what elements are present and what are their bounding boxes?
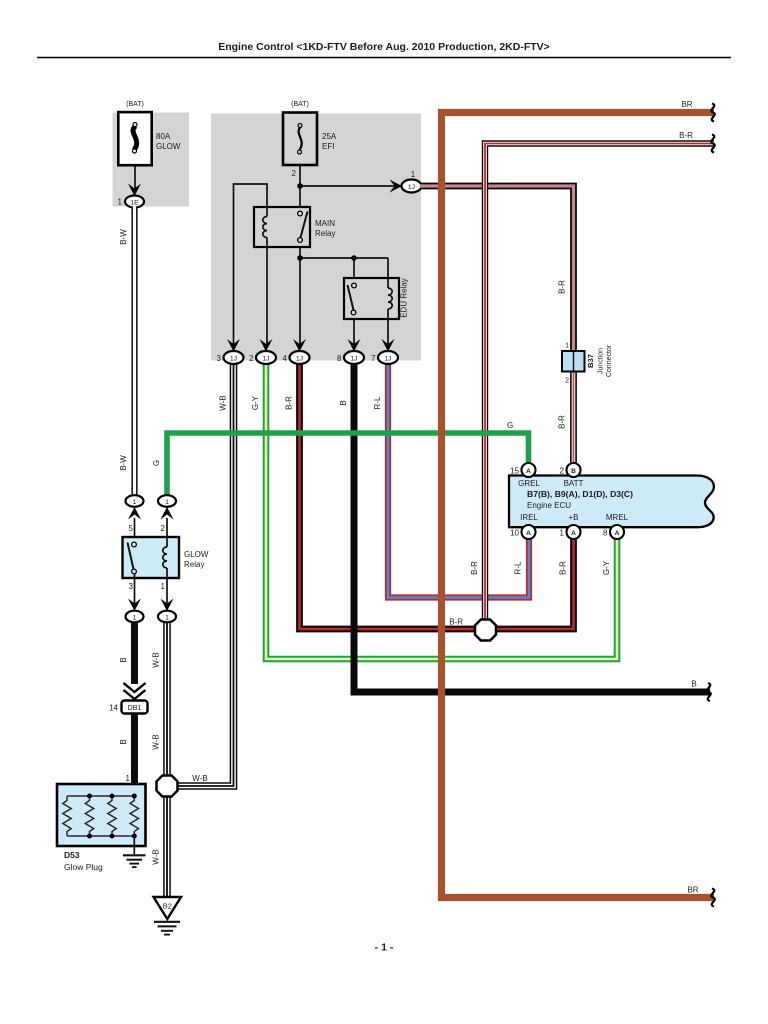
connector 7(1J)	[371, 339, 398, 364]
svg-text:2: 2	[249, 354, 254, 363]
connector 1 oval left above glow relay	[126, 495, 144, 519]
svg-text:B37: B37	[586, 354, 595, 368]
svg-text:Connector: Connector	[606, 344, 613, 377]
wire B-R +B to junction	[494, 539, 574, 629]
svg-text:Glow Plug: Glow Plug	[64, 862, 103, 872]
break symbol BR top	[711, 104, 714, 122]
wire arrow to glow relay pin2	[166, 518, 168, 538]
svg-text:1J: 1J	[230, 356, 237, 363]
svg-text:A: A	[571, 530, 576, 537]
svg-text:25A: 25A	[322, 132, 337, 141]
svg-text:B7(B), B9(A), D1(D), D3(C): B7(B), B9(A), D1(D), D3(C)	[527, 489, 633, 499]
break symbol B	[707, 683, 710, 701]
node W-B junction octagon	[157, 776, 178, 797]
svg-text:4: 4	[283, 354, 288, 363]
node main/EDU junction	[297, 255, 303, 261]
junction connector B37	[562, 351, 585, 372]
svg-text:R-L: R-L	[373, 396, 382, 409]
svg-text:1J: 1J	[262, 356, 269, 363]
relay K3 GLOW Relay	[123, 537, 180, 578]
break symbol BR bottom	[711, 889, 714, 907]
svg-text:B-W: B-W	[119, 455, 128, 471]
connector 1E	[125, 196, 144, 208]
wire arrow to glow relay pin5	[134, 518, 136, 542]
wire fuse F2 to main relay switch	[299, 165, 301, 213]
wire G-Y 2(1J) to MREL	[266, 364, 617, 659]
connector 1 oval below pin1	[158, 599, 176, 623]
svg-text:Relay: Relay	[315, 229, 335, 238]
pin 15(A) GREL	[510, 463, 535, 477]
relay K1 MAIN Relay	[254, 207, 310, 247]
svg-text:BATT: BATT	[564, 479, 584, 488]
svg-text:14: 14	[109, 704, 118, 713]
connector DB1	[122, 701, 148, 714]
label B37 Junction Connector	[586, 344, 613, 377]
break symbol B-R top	[711, 135, 714, 153]
svg-text:MREL: MREL	[606, 513, 629, 522]
node B-R junction octagon	[475, 620, 496, 641]
wire W-B 3(1J) to junction	[176, 364, 234, 786]
svg-text:1: 1	[411, 170, 416, 179]
wire B 8(1J) to break	[354, 364, 710, 692]
svg-text:R-L: R-L	[514, 561, 523, 574]
wire glow plug to ground	[133, 836, 135, 854]
svg-text:1J: 1J	[408, 184, 415, 191]
svg-text:A: A	[526, 468, 531, 475]
svg-text:G-Y: G-Y	[251, 395, 260, 410]
svg-text:EDU Relay: EDU Relay	[400, 278, 409, 318]
svg-text:2: 2	[161, 524, 166, 533]
svg-text:EFI: EFI	[322, 142, 334, 151]
ground below B2	[154, 922, 180, 935]
wire main relay coil bottom to 2(1J)	[266, 247, 268, 348]
svg-text:BR: BR	[687, 886, 698, 895]
svg-text:1: 1	[126, 774, 131, 783]
svg-text:W-B: W-B	[192, 774, 207, 783]
svg-text:DB1: DB1	[128, 703, 142, 712]
svg-text:1: 1	[133, 615, 137, 622]
arrow open chevrons above DB1	[124, 683, 146, 699]
svg-text:1J: 1J	[296, 356, 303, 363]
wire fuse F1 to connector 1E	[134, 165, 136, 190]
svg-text:B-R: B-R	[285, 396, 294, 410]
pin 2(B) BATT	[560, 463, 581, 477]
svg-text:5: 5	[129, 524, 134, 533]
connector 1 oval right above glow relay	[158, 495, 176, 519]
svg-text:B2: B2	[163, 902, 172, 911]
wire B glow relay pin3 down	[131, 622, 138, 684]
wire EDU switch to 8(1J)	[353, 313, 355, 348]
svg-text:B-W: B-W	[119, 229, 128, 245]
svg-text:2: 2	[565, 378, 569, 385]
svg-text:Relay: Relay	[184, 560, 204, 569]
shading box relay block	[211, 114, 421, 361]
svg-text:1: 1	[133, 499, 137, 506]
svg-text:B-R: B-R	[559, 561, 568, 575]
svg-text:1: 1	[118, 198, 123, 207]
svg-text:(BAT): (BAT)	[126, 101, 144, 108]
connector 3(1J)	[217, 339, 244, 364]
wire EDU coil to 7(1J)	[387, 315, 389, 348]
connector 1J top right	[402, 180, 422, 193]
relay K2 EDU Relay	[344, 278, 399, 319]
fuse F1 80A GLOW	[118, 112, 151, 165]
svg-text:BR: BR	[681, 100, 692, 109]
svg-text:(BAT): (BAT)	[291, 101, 309, 108]
connector 8(1J)	[337, 339, 364, 364]
svg-text:8: 8	[603, 529, 608, 538]
svg-text:1: 1	[560, 529, 565, 538]
fuse F2 25A EFI	[283, 113, 317, 166]
arrow into 1E	[128, 184, 141, 197]
svg-text:Engine ECU: Engine ECU	[527, 501, 571, 510]
svg-text:B-R: B-R	[679, 131, 693, 140]
connector 1 oval below pin3	[126, 599, 144, 623]
wire junction to 1J arrow	[300, 185, 398, 187]
svg-text:D53: D53	[64, 850, 80, 860]
svg-text:B: B	[119, 657, 128, 662]
wire relay junction row	[300, 257, 388, 259]
ground below glow plug	[123, 855, 146, 867]
svg-text:B: B	[571, 468, 576, 475]
svg-text:15: 15	[510, 467, 519, 476]
pin 10(A) IREL	[510, 525, 535, 539]
svg-text:IREL: IREL	[520, 513, 538, 522]
connector 2(1J)	[249, 339, 276, 364]
svg-text:G-Y: G-Y	[602, 560, 611, 575]
title rule	[37, 57, 731, 59]
wire R-L 7(1J) to IREL	[388, 364, 529, 598]
svg-text:7: 7	[371, 354, 376, 363]
svg-text:8: 8	[337, 354, 342, 363]
svg-text:2: 2	[292, 169, 297, 178]
svg-text:A: A	[526, 530, 531, 537]
svg-text:- 1 -: - 1 -	[375, 942, 394, 954]
svg-text:GLOW: GLOW	[184, 550, 209, 559]
svg-text:B-R: B-R	[470, 561, 479, 575]
svg-text:G: G	[152, 460, 161, 466]
pin 8(A) MREL	[603, 525, 624, 539]
wire BR main battery	[442, 113, 715, 898]
svg-text:GLOW: GLOW	[156, 142, 181, 151]
svg-text:B-R: B-R	[558, 280, 567, 294]
svg-text:80A: 80A	[156, 132, 171, 141]
svg-text:W-B: W-B	[152, 734, 161, 749]
wire G glow relay to GREL	[167, 433, 529, 496]
svg-text:Engine Control <1KD-FTV Before: Engine Control <1KD-FTV Before Aug. 2010…	[218, 41, 550, 53]
svg-text:1: 1	[161, 582, 166, 591]
svg-text:1: 1	[565, 343, 569, 350]
wire B-W 1E to glow relay	[131, 207, 137, 496]
wire to EDU switch	[353, 258, 355, 283]
svg-text:W-B: W-B	[219, 395, 228, 410]
wire glow relay pin1 down	[166, 578, 168, 604]
svg-text:1J: 1J	[350, 356, 357, 363]
shading box glow fuse	[113, 113, 190, 207]
ground point B2	[154, 897, 182, 919]
wire main relay coil to 3(1J)	[234, 184, 268, 348]
svg-text:1: 1	[165, 499, 169, 506]
glow plug D53	[57, 784, 146, 846]
svg-text:W-B: W-B	[152, 652, 161, 667]
arrow into 1J	[390, 180, 403, 193]
svg-text:B: B	[691, 680, 696, 689]
wire W-B junction to B2	[163, 797, 171, 897]
wire B DB1 to glow plug	[131, 713, 138, 795]
svg-text:B-R: B-R	[449, 618, 463, 627]
svg-text:GREL: GREL	[518, 479, 540, 488]
wire main relay switch bottom to 4(1J)	[299, 242, 301, 348]
svg-text:A: A	[615, 530, 620, 537]
svg-text:G: G	[507, 421, 513, 430]
svg-text:B-R: B-R	[558, 415, 567, 429]
svg-text:MAIN: MAIN	[315, 219, 335, 228]
svg-text:10: 10	[510, 529, 519, 538]
node EDU switch junction	[351, 255, 357, 261]
connector 4(1J)	[283, 339, 310, 364]
wire B-R battery feed	[485, 144, 714, 622]
pin 1(A) +B	[560, 525, 581, 539]
svg-text:1E: 1E	[130, 200, 139, 207]
svg-text:3: 3	[217, 354, 222, 363]
svg-text:+B: +B	[568, 513, 578, 522]
svg-text:3: 3	[129, 582, 134, 591]
wire glow relay pin3 down	[134, 574, 136, 604]
svg-text:W-B: W-B	[152, 849, 161, 864]
ECU U1 Engine ECU	[509, 476, 714, 528]
wire 1J to B37 to BATT	[420, 186, 574, 463]
svg-text:1J: 1J	[384, 356, 391, 363]
node fuse/relay junction	[297, 183, 303, 189]
wire to EDU coil	[387, 258, 389, 287]
svg-text:2: 2	[560, 467, 565, 476]
svg-text:Junction: Junction	[598, 348, 605, 374]
svg-text:B: B	[339, 400, 348, 405]
wire B-R 4(1J) to junction	[300, 364, 479, 629]
wire W-B glow relay pin1 down	[163, 622, 171, 775]
svg-text:1: 1	[165, 615, 169, 622]
svg-text:B: B	[119, 739, 128, 744]
